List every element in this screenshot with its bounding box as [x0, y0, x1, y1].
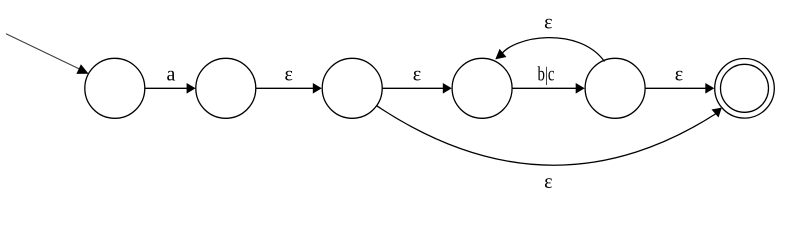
label epsilon q4-q5	[675, 64, 683, 86]
transition epsilon: q1 to q2	[256, 83, 322, 94]
accepting state q5 inner ring	[721, 64, 769, 112]
label b|c	[538, 64, 555, 86]
transition epsilon: q4 to q5	[645, 83, 714, 94]
label epsilon top loop	[544, 12, 552, 34]
svg-text:ε: ε	[675, 64, 683, 86]
state q2	[322, 58, 382, 118]
skip transition epsilon: q2 to accept (bottom arc)	[377, 106, 722, 166]
svg-text:ε: ε	[413, 64, 421, 86]
transition epsilon: q2 to q3	[382, 83, 451, 94]
transition a: q0 to q1	[145, 83, 196, 94]
state q4	[585, 58, 645, 118]
start arrow wire	[6, 34, 89, 74]
state q1	[196, 58, 256, 118]
svg-text:ε: ε	[544, 171, 552, 193]
accepting state q5 outer ring	[715, 59, 775, 119]
svg-text:a: a	[167, 64, 176, 86]
label epsilon bottom arc	[544, 171, 552, 193]
state q3	[452, 58, 512, 118]
label a	[167, 64, 176, 86]
svg-text:ε: ε	[284, 64, 292, 86]
state q0	[85, 58, 145, 118]
svg-text:ε: ε	[544, 12, 552, 34]
label epsilon q1-q2	[284, 64, 292, 86]
label epsilon q2-q3	[413, 64, 421, 86]
transition b|c: q3 to q4	[512, 83, 585, 94]
svg-text:b|c: b|c	[538, 64, 555, 86]
loop transition epsilon: q4 back to q3 (top arc)	[495, 38, 604, 62]
